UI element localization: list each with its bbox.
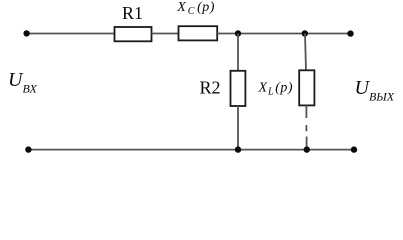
wire between R1 and Xc bbox=[152, 33, 179, 35]
wire XL branch dash segment 2 bbox=[305, 125, 307, 131]
resistor R1 bbox=[115, 27, 152, 41]
terminal bottom-left bbox=[25, 146, 31, 152]
wire XL branch lower (dashed) segment 1 bbox=[305, 105, 307, 118]
terminal bottom-right bbox=[351, 146, 357, 152]
svg-text:XL(p): XL(p) bbox=[258, 81, 294, 98]
svg-text:R1: R1 bbox=[122, 3, 143, 23]
resistor R2 bbox=[231, 71, 246, 106]
node junction B (top of XL branch) bbox=[302, 30, 308, 36]
wire R2 branch lower bbox=[237, 106, 239, 150]
wire top-right segment bbox=[217, 33, 350, 35]
terminal top-right bbox=[347, 30, 353, 36]
wire bottom bbox=[28, 149, 354, 151]
terminal top-left bbox=[23, 30, 29, 36]
capacitor Xc(p) bbox=[179, 26, 218, 40]
wire top-left segment bbox=[27, 33, 115, 35]
wire XL branch upper bbox=[305, 34, 306, 71]
node junction D (bottom of XL branch) bbox=[304, 146, 310, 152]
wire R2 branch upper bbox=[237, 34, 239, 71]
node junction A (top of R2 branch) bbox=[235, 30, 241, 36]
svg-text:R2: R2 bbox=[200, 78, 221, 98]
wire XL branch lower segment 3 bbox=[306, 137, 308, 150]
inductor XL(p) bbox=[299, 70, 314, 105]
node junction C (bottom of R2 branch) bbox=[235, 146, 241, 152]
